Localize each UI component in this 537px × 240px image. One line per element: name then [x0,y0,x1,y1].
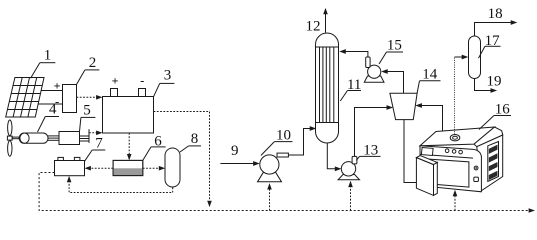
label 5 leader [80,117,96,131]
label 11 leader [340,91,361,102]
oven display screen [421,148,433,156]
svg-text:3: 3 [164,68,172,84]
svg-text:9: 9 [231,143,239,159]
wires box5 output bundle [80,129,90,143]
pipe pump13 to hopper left [355,108,388,157]
stream 19 line [475,79,498,93]
hydrogen tank 8 [165,148,180,187]
dashed wire controller3 right to bus [154,112,212,208]
svg-text:19: 19 [487,73,502,89]
pipe column bottom to pump13 [327,143,335,169]
reactor column 11 [316,33,339,143]
wires generator to box 5 [48,136,59,140]
oven rim band [474,127,503,147]
pump 13 [338,156,359,179]
dashed pipe tank8 to battery7 loop [67,176,173,193]
svg-text:7: 7 [95,136,103,152]
label 3 leader [154,83,175,96]
label 10 leader [261,142,293,156]
svg-text:8: 8 [191,131,199,147]
oven side button [474,166,478,170]
pipe to hopper right inlet [421,106,442,137]
dashed wire bus to pump10 [267,183,272,210]
oven right face [477,135,503,191]
svg-text:18: 18 [488,6,503,22]
pipe hopper top to blower15 [387,72,404,94]
pipe blower15 to column top [345,52,368,58]
labels text [44,6,510,159]
svg-text:4: 4 [49,102,57,118]
wire panel to converter bottom [38,103,63,105]
label 6 leader [143,147,166,161]
svg-text:16: 16 [495,101,511,117]
dashed pipe electrolyzer 6 to tank 8 [143,167,160,169]
svg-text:-: - [140,73,144,87]
oven door slab [416,156,437,196]
label 13 leader [356,156,380,160]
svg-text:2: 2 [89,55,97,71]
dashed wire bus to oven [453,190,458,211]
oven top port [450,135,460,141]
svg-text:15: 15 [387,38,402,54]
svg-text:12: 12 [306,19,321,35]
feed line 9 [220,163,253,165]
label 1 [31,63,56,79]
dashed wire controller3 down to electrolyzer 6 [128,133,130,155]
oven control strip line [420,154,473,158]
oven cavity opening [429,159,469,187]
svg-text:+: + [54,79,61,93]
stream 12 line up [323,8,328,33]
hopper 14 [390,93,417,119]
svg-text:11: 11 [347,77,361,93]
svg-text:6: 6 [154,133,162,149]
oven vent slats [489,145,498,180]
solar panel 1 [6,78,44,118]
dashed wire box2 to controller 3 [77,96,97,98]
label 14 leader [417,81,440,93]
oven vent frame [488,142,499,182]
oven front face [420,146,481,192]
pump 10 [258,153,289,182]
pipe hopper bottom to oven door [404,120,425,183]
oven control buttons [445,149,462,154]
dashed wire box5 to controller 3 [89,132,98,134]
label 2 leader [77,70,100,85]
blower 15 [364,57,384,82]
battery box 7 [55,157,85,175]
svg-text:10: 10 [276,127,291,143]
dashed wire electrolyzer 6 to battery 7 [91,167,114,169]
converter box 2 [63,85,77,113]
svg-text:1: 1 [44,48,52,64]
wire panel to converter top [41,90,63,92]
label 17 leader [479,46,501,58]
stream 18 line [475,20,518,36]
svg-text:17: 17 [485,33,501,49]
svg-text:5: 5 [83,102,91,118]
dashed wire battery7 to bottom bus [39,173,529,211]
controller box 3 [103,89,154,134]
label 4 leader [38,117,60,133]
label 8 leader [180,146,201,152]
oven side square [474,177,479,181]
wind turbine 4 [7,120,48,156]
rectifier box 5 [59,132,80,145]
label 15 leader [379,52,403,64]
minus tick on bottom wire [56,102,59,104]
svg-text:13: 13 [363,142,378,158]
label 7 leader [85,150,106,161]
electrolyzer box 6 [113,160,143,175]
bus end arrow right [529,208,535,213]
label 16 leader [479,116,511,130]
svg-text:14: 14 [422,67,438,83]
svg-text:+: + [112,74,119,88]
separator vessel 17 [469,36,481,79]
microwave oven 16 top face [420,127,495,146]
pipe oven port to separator 17 [454,57,456,135]
dashed wire bus to pump13 [348,181,353,211]
pipe pump10 to column 11 [288,129,310,156]
